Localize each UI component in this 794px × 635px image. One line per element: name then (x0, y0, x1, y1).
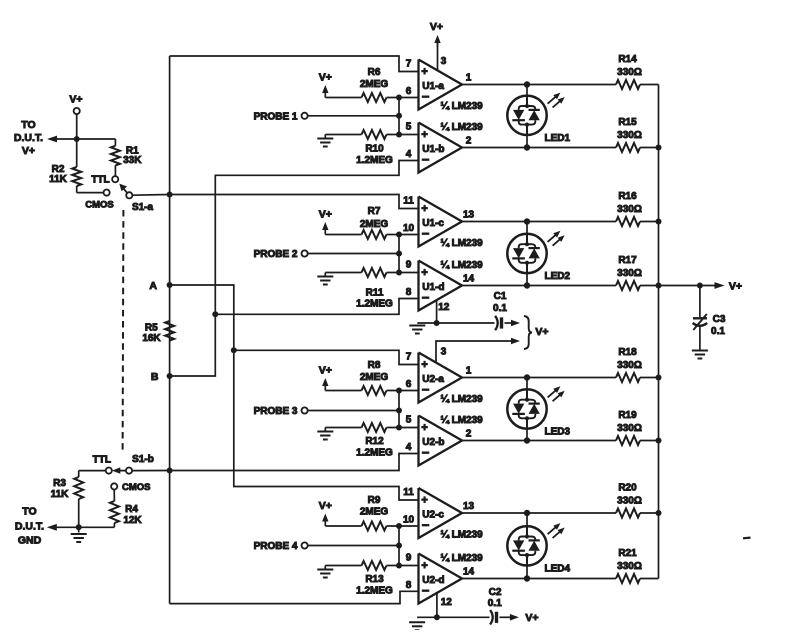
svg-text:¼ LM239: ¼ LM239 (441, 394, 484, 405)
svg-text:13: 13 (463, 210, 475, 221)
svg-text:PROBE 2: PROBE 2 (254, 249, 298, 260)
svg-text:R12: R12 (365, 436, 384, 447)
svg-text:R9: R9 (368, 495, 381, 506)
svg-text:U1-d: U1-d (422, 282, 444, 293)
svg-text:¼ LM239: ¼ LM239 (441, 260, 484, 271)
svg-text:330Ω: 330Ω (617, 268, 642, 279)
svg-text:TTL: TTL (91, 175, 109, 186)
svg-text:33K: 33K (123, 155, 142, 166)
svg-text:¼ LM239: ¼ LM239 (441, 101, 484, 112)
svg-text:12: 12 (441, 597, 453, 608)
svg-text:R5: R5 (145, 323, 158, 334)
svg-text:C2: C2 (489, 587, 502, 598)
svg-text:+: + (421, 359, 427, 371)
svg-text:S1-b: S1-b (132, 454, 154, 465)
svg-text:CMOS: CMOS (122, 482, 151, 493)
svg-text:A: A (149, 280, 157, 292)
svg-text:13: 13 (463, 501, 475, 512)
svg-text:1: 1 (466, 366, 472, 377)
svg-text:330Ω: 330Ω (617, 496, 642, 507)
svg-text:2: 2 (466, 429, 472, 440)
svg-text:LED1: LED1 (545, 133, 571, 144)
svg-text:R8: R8 (368, 360, 381, 371)
svg-text:330Ω: 330Ω (617, 67, 642, 78)
svg-text:4: 4 (406, 149, 412, 160)
svg-text:9: 9 (406, 553, 412, 564)
svg-text:5: 5 (406, 122, 412, 133)
svg-text:11: 11 (403, 196, 414, 207)
svg-text:TO: TO (21, 119, 35, 131)
svg-text:C3: C3 (713, 314, 726, 325)
svg-text:4: 4 (406, 442, 412, 453)
svg-text:6: 6 (406, 379, 412, 390)
svg-text:¼ LM239: ¼ LM239 (441, 530, 484, 541)
svg-text:3: 3 (441, 56, 447, 67)
svg-text:+: + (421, 267, 427, 279)
svg-text:U1-b: U1-b (422, 144, 444, 155)
svg-text:10: 10 (403, 223, 415, 234)
svg-text:2: 2 (466, 136, 472, 147)
svg-text:+: + (421, 66, 427, 78)
svg-text:330Ω: 330Ω (617, 204, 642, 215)
svg-text:+: + (421, 422, 427, 434)
svg-text:R7: R7 (368, 206, 381, 217)
svg-text:1.2MEG: 1.2MEG (356, 299, 393, 310)
svg-text:R6: R6 (368, 67, 381, 78)
svg-text:R18: R18 (618, 347, 637, 358)
svg-text:R19: R19 (618, 410, 637, 421)
svg-text:R10: R10 (365, 144, 384, 155)
svg-text:V+: V+ (319, 365, 332, 377)
svg-text:R3: R3 (53, 478, 66, 489)
svg-text:5: 5 (406, 415, 412, 426)
svg-text:12K: 12K (123, 515, 142, 526)
svg-text:R20: R20 (618, 483, 637, 494)
svg-text:8: 8 (406, 580, 412, 591)
svg-text:TO: TO (22, 506, 36, 518)
svg-text:R14: R14 (618, 54, 637, 65)
svg-text:LED2: LED2 (545, 271, 571, 282)
svg-text:6: 6 (406, 86, 412, 97)
svg-text:V+: V+ (319, 209, 332, 221)
svg-text:16K: 16K (142, 333, 161, 344)
svg-text:V+: V+ (535, 326, 548, 338)
svg-text:U2-d: U2-d (422, 575, 444, 586)
svg-text:330Ω: 330Ω (617, 130, 642, 141)
svg-text:V+: V+ (319, 72, 332, 84)
svg-text:LED3: LED3 (545, 427, 571, 438)
svg-text:1.2MEG: 1.2MEG (356, 586, 393, 597)
svg-text:14: 14 (463, 274, 475, 285)
svg-text:TTL: TTL (93, 454, 111, 465)
svg-text:¼ LM239: ¼ LM239 (441, 553, 484, 564)
svg-text:U2-b: U2-b (422, 437, 444, 448)
svg-text:11: 11 (403, 487, 414, 498)
svg-text:D.U.T.: D.U.T. (14, 132, 43, 144)
svg-text:+: + (421, 129, 427, 141)
svg-text:0.1: 0.1 (488, 598, 502, 609)
svg-text:14: 14 (463, 567, 475, 578)
svg-text:V+: V+ (525, 612, 538, 624)
svg-text:CMOS: CMOS (85, 199, 114, 210)
svg-text:V+: V+ (69, 94, 82, 106)
svg-text:2MEG: 2MEG (360, 372, 389, 383)
svg-text:LED4: LED4 (545, 563, 571, 574)
svg-text:V+: V+ (729, 281, 742, 293)
svg-text:V+: V+ (430, 21, 443, 33)
svg-text:10: 10 (403, 515, 415, 526)
svg-text:U2-a: U2-a (422, 374, 444, 385)
svg-text:V+: V+ (319, 500, 332, 512)
svg-text:2MEG: 2MEG (360, 507, 389, 518)
svg-text:U1-c: U1-c (422, 218, 444, 229)
svg-text:B: B (151, 371, 159, 383)
svg-text:S1-a: S1-a (132, 202, 154, 213)
svg-text:0.1: 0.1 (711, 326, 725, 337)
svg-text:R16: R16 (618, 191, 637, 202)
svg-text:1.2MEG: 1.2MEG (356, 448, 393, 459)
svg-text:+: + (421, 560, 427, 572)
svg-text:R15: R15 (618, 117, 637, 128)
svg-text:U1-a: U1-a (422, 81, 444, 92)
svg-text:2MEG: 2MEG (360, 79, 389, 90)
svg-text:3: 3 (441, 347, 447, 358)
svg-text:¼ LM239: ¼ LM239 (441, 238, 484, 249)
svg-text:V+: V+ (22, 145, 35, 157)
svg-text:11K: 11K (49, 174, 68, 185)
svg-text:R4: R4 (125, 504, 138, 515)
svg-text:PROBE 4: PROBE 4 (254, 541, 298, 552)
svg-text:D.U.T.: D.U.T. (15, 521, 44, 533)
svg-text:7: 7 (406, 59, 412, 70)
svg-text:PROBE 3: PROBE 3 (254, 406, 298, 417)
svg-text:11K: 11K (51, 489, 70, 500)
svg-text:GND: GND (18, 535, 42, 547)
svg-text:¼ LM239: ¼ LM239 (441, 122, 484, 133)
svg-text:U2-c: U2-c (422, 509, 444, 520)
svg-text:+: + (421, 203, 427, 215)
svg-text:7: 7 (406, 352, 412, 363)
svg-text:R11: R11 (366, 288, 384, 299)
svg-text:330Ω: 330Ω (617, 423, 642, 434)
svg-text:8: 8 (406, 287, 412, 298)
svg-text:PROBE 1: PROBE 1 (254, 111, 298, 122)
svg-text:R21: R21 (618, 548, 637, 559)
svg-text:0.1: 0.1 (493, 303, 507, 314)
svg-text:12: 12 (438, 302, 450, 313)
svg-text:1.2MEG: 1.2MEG (356, 155, 393, 166)
svg-text:¼ LM239: ¼ LM239 (441, 415, 484, 426)
svg-text:+: + (421, 495, 427, 507)
svg-text:330Ω: 330Ω (617, 561, 642, 572)
svg-text:C1: C1 (494, 291, 507, 302)
svg-text:330Ω: 330Ω (617, 360, 642, 371)
svg-text:R13: R13 (365, 574, 384, 585)
svg-text:2MEG: 2MEG (360, 219, 389, 230)
svg-text:R17: R17 (618, 255, 637, 266)
svg-text:1: 1 (466, 73, 472, 84)
svg-text:9: 9 (406, 260, 412, 271)
